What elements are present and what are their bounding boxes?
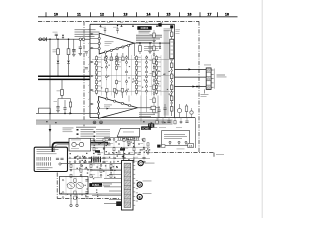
- diode D601: [57, 61, 60, 64]
- inline connector pair: [79, 38, 85, 40]
- transistor Q802: [76, 183, 83, 189]
- note text right of apex: [144, 46, 161, 51]
- resistor R604: [69, 99, 71, 114]
- node junction on band: [93, 121, 102, 124]
- right-edge component column (R/D chain): [170, 28, 180, 116]
- capacitor C621: [163, 104, 166, 118]
- wire: output rail to CN803: [60, 193, 122, 195]
- wire: to CN602 pin 3: [175, 76, 207, 78]
- stub parts on chain border: [85, 52, 88, 69]
- internal bias network rows (R/C bank): [92, 55, 175, 96]
- hatched pad cluster: [92, 157, 101, 163]
- mid servo rows: [69, 164, 121, 179]
- legend note text: [75, 29, 100, 37]
- lower-right parts row: [156, 118, 189, 128]
- wire: to CN602 pin 5: [175, 86, 207, 88]
- svg-text:14: 14: [147, 13, 151, 17]
- svg-text:IC801: IC801: [92, 183, 100, 187]
- resistor R603: [57, 79, 64, 98]
- diode D600 (above line): [62, 35, 64, 39]
- resistor R611: [139, 43, 142, 54]
- svg-text:IC601: IC601: [142, 126, 150, 130]
- svg-text:18: 18: [225, 13, 229, 17]
- shield border chain line (top): [38, 20, 199, 22]
- transistor Q611: [177, 104, 181, 118]
- driver stage box: [60, 177, 89, 195]
- transistor Q612: [190, 108, 193, 118]
- shield hatch column (right inner): [164, 30, 169, 116]
- svg-text:12: 12: [100, 13, 104, 17]
- oscillator block X801: [69, 138, 91, 151]
- servo network block rows: [61, 138, 153, 164]
- shield box border (main block): [88, 24, 195, 117]
- page reference D: [136, 180, 152, 189]
- note text below chain: [216, 153, 224, 156]
- wire: op-amp 2 output: [137, 106, 160, 109]
- thick shield stub wire: [53, 143, 109, 152]
- power supply box PS801: [34, 147, 67, 171]
- note text right of IC601: [164, 29, 173, 32]
- IC602 flat-pack outline: [117, 128, 139, 140]
- capacitor C601 (above line): [53, 32, 58, 39]
- wire: verticals to band: [129, 96, 158, 122]
- capacitor C605: [63, 100, 66, 113]
- wire: input line to shield block: [38, 38, 90, 40]
- test point pad TP602: [157, 145, 160, 148]
- signal name table: [76, 126, 113, 146]
- ruler scale with zone numbers 10-18: [38, 12, 238, 16]
- connector CN602: [206, 68, 214, 90]
- wire bundle to CN803: [92, 169, 122, 203]
- note text left: [63, 128, 74, 132]
- ground bus (double line): [38, 75, 90, 79]
- diode D602: [67, 61, 70, 64]
- note text left of zone tag: [177, 148, 185, 151]
- node TP601: [49, 38, 51, 40]
- connector CN803: [122, 161, 136, 211]
- svg-text:15: 15: [189, 144, 193, 148]
- shield border chain line (right): [198, 21, 200, 152]
- wire: vertical feed at x50: [49, 39, 51, 152]
- optical pickup note box: [162, 131, 190, 146]
- svg-text:10: 10: [54, 13, 58, 17]
- bias parts around IC801: [62, 177, 89, 200]
- page reference E: [136, 193, 152, 201]
- left-edge pin components of main block: [90, 33, 94, 104]
- wire: to CN602 pin 1: [175, 68, 207, 70]
- wire: EFM line with arrow: [99, 108, 134, 110]
- signal flow arrow: [70, 112, 73, 114]
- IC602 label: [141, 126, 157, 130]
- svg-text:17: 17: [208, 13, 212, 17]
- resistor array RA601: [170, 39, 174, 59]
- capacitor C604: [54, 99, 60, 113]
- pin stub components under op-amp 1: [104, 47, 128, 61]
- pin stubs above op-amp 2: [106, 89, 124, 99]
- shield border chain line (left): [83, 21, 85, 131]
- shield border chain line (bottom): [146, 152, 214, 154]
- transistor Q801: [67, 183, 74, 189]
- diode D803: [122, 151, 124, 161]
- resistor R621: [185, 104, 188, 118]
- resistor R602: [67, 39, 76, 60]
- resistor R601: [53, 39, 60, 60]
- wire: junction rail: [58, 98, 71, 100]
- label CN602: [204, 64, 211, 67]
- note text (TOTAL ...): [139, 112, 158, 116]
- capacitor C622: [157, 106, 160, 118]
- svg-text:15: 15: [167, 13, 171, 17]
- flex connector pad: [148, 123, 154, 128]
- IC IC601 label: [136, 26, 162, 43]
- wire: supply drops: [70, 194, 78, 207]
- lower-right block right border: [195, 118, 197, 148]
- label (Page 75): [217, 75, 227, 78]
- test point pad TP603: [162, 145, 165, 148]
- scan page edge line: [261, 0, 263, 218]
- solder pads on band: [46, 121, 166, 124]
- wire: mute line to op-amp 2: [36, 112, 99, 114]
- wire: NC stub: [201, 89, 209, 96]
- svg-text:11: 11: [77, 13, 81, 17]
- shielded flat-cable band: [36, 120, 173, 125]
- capacitor C602: [72, 39, 76, 56]
- signal flow arrow: [193, 85, 196, 87]
- IC801 label: [89, 183, 112, 187]
- node junction: [64, 113, 66, 115]
- connector plug J601: [39, 37, 46, 41]
- capacitor C611: [148, 43, 152, 53]
- op-amp IC601 (1/2) RF amp: [90, 33, 134, 56]
- test pad TP802: [120, 148, 125, 150]
- shield corner pad: [170, 25, 173, 28]
- test pad TP801: [95, 150, 100, 152]
- svg-text:IC601: IC601: [141, 26, 149, 30]
- svg-text:16: 16: [188, 13, 192, 17]
- solder pad scatter: [61, 138, 151, 198]
- signal flow arrow (down): [49, 129, 52, 132]
- label box L-OUT: [38, 108, 50, 113]
- diode D611: [159, 43, 161, 48]
- resistor chain column x154: [150, 30, 156, 115]
- wire: op-amp 1 output: [134, 42, 174, 44]
- svg-text:13: 13: [124, 13, 128, 17]
- shield border chain line (bottom-left block): [56, 173, 58, 199]
- page reference C: [138, 161, 155, 166]
- shield hatch triangles on top border: [99, 22, 163, 26]
- node junction: [196, 86, 198, 88]
- zone tag 15: [188, 143, 194, 147]
- capacitor C603: [79, 40, 83, 55]
- op-amp IC601 (2/2) EFM comparator: [97, 97, 137, 119]
- signal flow arrow: [189, 68, 192, 70]
- shield corner pad: [158, 23, 161, 26]
- mounting pad: [116, 201, 121, 206]
- capacitor row above op-amp 1: [100, 25, 119, 34]
